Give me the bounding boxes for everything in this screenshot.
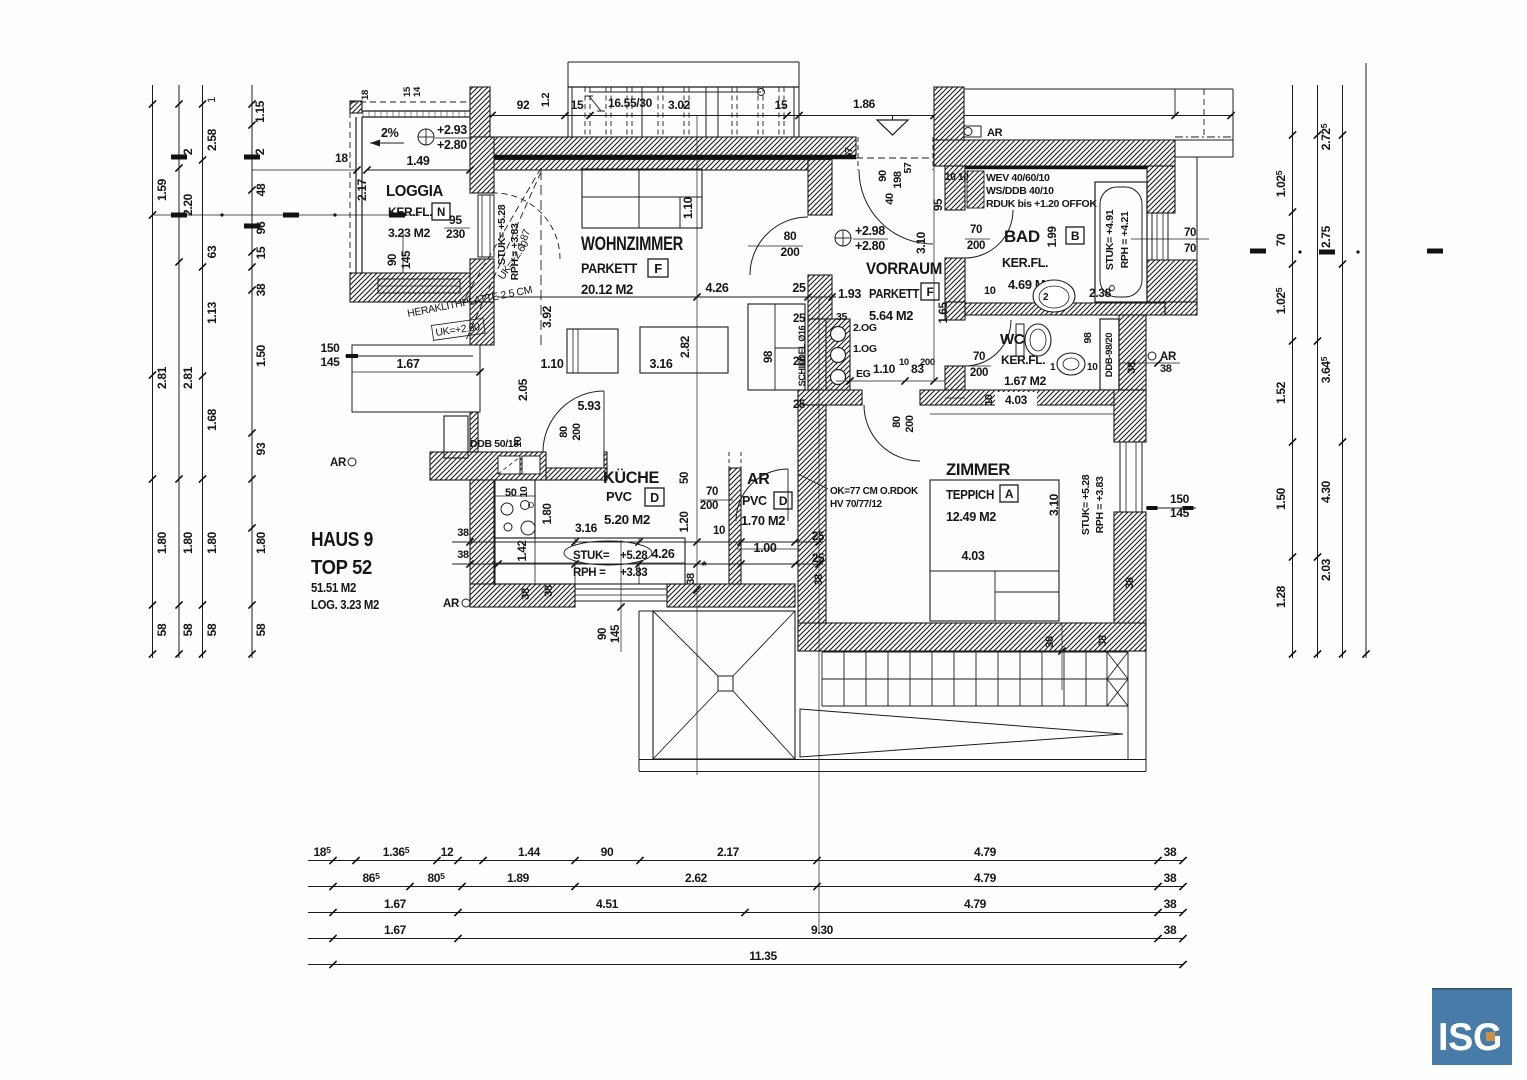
- cupboard boxes: [444, 416, 468, 458]
- svg-text:WC: WC: [1000, 331, 1025, 348]
- svg-text:AR: AR: [1160, 351, 1177, 363]
- svg-text:3.10: 3.10: [914, 231, 928, 254]
- svg-text:LOGGIA: LOGGIA: [386, 183, 443, 200]
- svg-text:25: 25: [793, 399, 806, 411]
- wohnzimmer dim line: [497, 296, 836, 298]
- svg-text:4.03: 4.03: [1005, 393, 1028, 407]
- svg-text:25: 25: [793, 356, 806, 368]
- svg-text:63: 63: [205, 245, 219, 258]
- east step band: [1165, 302, 1197, 315]
- svg-text:57: 57: [902, 162, 914, 173]
- svg-text:90: 90: [597, 628, 609, 640]
- entrance triangle symbol: [877, 120, 908, 135]
- svg-text:38: 38: [1044, 636, 1056, 648]
- svg-text:HAUS 9: HAUS 9: [311, 528, 373, 551]
- svg-text:+2.80: +2.80: [855, 239, 885, 253]
- zimmer dim vertical: [1061, 623, 1063, 690]
- svg-text:WEV 40/60/10: WEV 40/60/10: [986, 172, 1050, 184]
- svg-text:12: 12: [441, 845, 454, 859]
- svg-text:40: 40: [884, 193, 896, 205]
- kitchen bottom window: [575, 589, 667, 601]
- svg-text:4.30: 4.30: [1319, 480, 1333, 503]
- loggia left railing: [355, 117, 357, 273]
- svg-text:98: 98: [763, 350, 775, 363]
- svg-text:BAD: BAD: [1004, 227, 1040, 246]
- right chain bold ticks: [1250, 249, 1266, 254]
- svg-text:1.20: 1.20: [679, 512, 691, 533]
- svg-text:200: 200: [967, 240, 985, 252]
- svg-text:38: 38: [1164, 923, 1177, 937]
- left connector line y215: [152, 214, 420, 216]
- svg-text:1.10: 1.10: [873, 362, 896, 376]
- entrance door dashes: [857, 137, 859, 170]
- svg-text:AR: AR: [330, 457, 347, 469]
- svg-text:96: 96: [254, 221, 268, 234]
- wall top band right part: [934, 140, 1175, 166]
- vorraum furniture: [748, 304, 805, 390]
- svg-text:1.52: 1.52: [1274, 381, 1288, 404]
- svg-text:10: 10: [945, 172, 956, 183]
- svg-text:2.81: 2.81: [181, 366, 195, 389]
- vorraum level symbol: [835, 230, 851, 246]
- svg-text:4.26: 4.26: [652, 547, 675, 561]
- svg-text:145: 145: [321, 355, 341, 369]
- svg-text:25: 25: [812, 531, 825, 543]
- svg-text:3.16: 3.16: [650, 357, 673, 371]
- bad texts: [967, 171, 984, 208]
- wc fixtures: [1016, 324, 1024, 356]
- wohnzimmer-vorraum wall at shaft: [808, 319, 826, 390]
- svg-text:38: 38: [520, 588, 532, 600]
- svg-text:50: 50: [679, 472, 691, 484]
- svg-text:1.49: 1.49: [407, 154, 430, 168]
- ISG logo: [1432, 988, 1512, 1065]
- svg-text:1.67: 1.67: [384, 923, 407, 937]
- bad door arc: [965, 210, 1013, 258]
- ar door arc: [736, 469, 788, 521]
- svg-text:200: 200: [904, 415, 916, 433]
- svg-text:3.02: 3.02: [668, 98, 691, 112]
- svg-text:38: 38: [254, 283, 268, 296]
- svg-text:LOG. 3.23 M2: LOG. 3.23 M2: [311, 598, 379, 612]
- svg-text:38: 38: [1164, 897, 1177, 911]
- svg-text:38: 38: [1097, 635, 1109, 647]
- chimney block: [934, 87, 964, 166]
- svg-text:ZIMMER: ZIMMER: [946, 460, 1010, 479]
- svg-text:3.16: 3.16: [575, 521, 598, 535]
- svg-text:9.30: 9.30: [811, 923, 834, 937]
- svg-text:98: 98: [1082, 332, 1094, 343]
- loggia walls: [350, 101, 362, 113]
- svg-text:4.79: 4.79: [974, 871, 997, 885]
- svg-text:1.70 M2: 1.70 M2: [741, 514, 785, 528]
- wohnzimmer-vorraum wall upper: [808, 160, 832, 216]
- bottom dimension ticks: [329, 857, 336, 864]
- svg-text:200: 200: [700, 500, 718, 512]
- wohnzimmer wardrobe: [582, 169, 702, 228]
- zimmer bottom wall band: [798, 623, 1146, 651]
- svg-text:PARKETT: PARKETT: [581, 261, 638, 276]
- svg-text:200: 200: [571, 423, 583, 441]
- svg-text:1.65: 1.65: [938, 302, 950, 324]
- bad east window: [1152, 213, 1168, 260]
- svg-text:STUK= +5.28: STUK= +5.28: [496, 204, 508, 265]
- svg-text:2.17: 2.17: [355, 178, 369, 201]
- svg-text:4.79: 4.79: [974, 845, 997, 859]
- svg-text:2: 2: [253, 148, 267, 155]
- svg-text:51.51 M2: 51.51 M2: [311, 581, 356, 595]
- svg-text:57: 57: [843, 147, 855, 158]
- svg-text:38: 38: [457, 549, 469, 561]
- vorraum door arc: [750, 217, 808, 275]
- white step top right outline: [1175, 139, 1233, 141]
- west wall upper (staircase side): [470, 87, 490, 137]
- svg-text:1.50: 1.50: [1274, 487, 1288, 510]
- loggia door dashed arc: [494, 193, 560, 259]
- wc west wall: [945, 302, 965, 320]
- svg-text:1.80: 1.80: [155, 531, 169, 554]
- svg-text:+3.83: +3.83: [620, 567, 647, 579]
- west wall lower stub: [470, 412, 478, 452]
- roof ladder x triangles: [1107, 652, 1128, 679]
- svg-text:95: 95: [933, 198, 945, 211]
- svg-text:KER.FL.: KER.FL.: [388, 205, 432, 219]
- west wall mid: [470, 302, 494, 345]
- svg-text:1.99: 1.99: [1047, 227, 1059, 248]
- svg-text:18: 18: [360, 90, 371, 100]
- svg-text:38: 38: [1164, 845, 1177, 859]
- svg-text:1.10: 1.10: [681, 196, 695, 219]
- svg-text:2.OG: 2.OG: [853, 322, 877, 334]
- svg-text:1.86: 1.86: [853, 97, 876, 111]
- bottom dimension lines: [308, 860, 1183, 862]
- dimension break symbol: [589, 96, 601, 111]
- roof eave outline: [638, 611, 640, 771]
- svg-text:10: 10: [984, 285, 996, 297]
- svg-text:25: 25: [793, 313, 806, 325]
- svg-text:2.03: 2.03: [1319, 558, 1333, 581]
- entrance door arc: [859, 170, 933, 244]
- svg-text:145: 145: [610, 624, 622, 643]
- svg-text:150: 150: [321, 341, 341, 355]
- svg-text:PARKETT: PARKETT: [869, 287, 920, 301]
- svg-text:AR: AR: [443, 598, 460, 610]
- svg-text:KER.FL.: KER.FL.: [1001, 353, 1045, 367]
- svg-text:90: 90: [601, 845, 614, 859]
- svg-text:10: 10: [983, 394, 995, 405]
- svg-text:95: 95: [449, 213, 462, 227]
- left chain bold ticks: [171, 155, 187, 160]
- hip roof square: [653, 611, 795, 759]
- svg-text:KÜCHE: KÜCHE: [603, 468, 659, 487]
- svg-text:10: 10: [1087, 362, 1098, 373]
- schiedel shaft: [826, 319, 850, 390]
- svg-text:48: 48: [254, 183, 268, 196]
- svg-text:PVC: PVC: [742, 494, 767, 508]
- svg-text:1.80: 1.80: [542, 504, 554, 525]
- svg-text:+2.80: +2.80: [437, 138, 467, 152]
- svg-text:92: 92: [517, 98, 530, 112]
- svg-text:1.28: 1.28: [1274, 585, 1288, 608]
- svg-text:2: 2: [181, 148, 195, 155]
- wc door arc: [965, 320, 1011, 366]
- svg-text:HV 70/77/12: HV 70/77/12: [830, 499, 883, 510]
- wohnzimmer-vorraum wall lower: [808, 275, 832, 319]
- svg-text:1.93: 1.93: [838, 287, 861, 301]
- bathtub: [1095, 182, 1147, 302]
- svg-text:KER.FL.: KER.FL.: [1002, 256, 1048, 270]
- svg-text:70: 70: [706, 486, 718, 498]
- wohnzimmer furniture B: [640, 327, 728, 373]
- bad east wall below window: [1147, 260, 1197, 302]
- wohnzimmer furniture A: [567, 329, 618, 373]
- svg-text:TEPPICH: TEPPICH: [946, 488, 994, 502]
- svg-text:A: A: [1005, 487, 1014, 501]
- zimmer bed: [930, 480, 1059, 621]
- svg-text:3.92: 3.92: [540, 305, 554, 328]
- svg-text:93: 93: [254, 442, 268, 455]
- AR marker top right: [961, 126, 981, 137]
- svg-text:DDB-98/20: DDB-98/20: [1104, 333, 1115, 377]
- svg-text:RPH = +3.83: RPH = +3.83: [1094, 476, 1106, 533]
- svg-text:WS/DDB 40/10: WS/DDB 40/10: [986, 185, 1054, 197]
- svg-text:200: 200: [970, 367, 988, 379]
- svg-text:1.42: 1.42: [517, 541, 529, 562]
- 4.03 below wc: [995, 392, 1037, 407]
- svg-text:AR: AR: [987, 127, 1003, 139]
- svg-text:80: 80: [891, 416, 903, 428]
- svg-text:3.23 M2: 3.23 M2: [388, 226, 431, 240]
- svg-text:38: 38: [1164, 871, 1177, 885]
- heraklith texts: [406, 284, 533, 320]
- kitchen bottom wall: [470, 584, 575, 607]
- kitchen window dim: [620, 540, 622, 652]
- svg-text:1.44: 1.44: [518, 845, 541, 859]
- svg-text:2: 2: [1043, 292, 1049, 303]
- svg-text:12.49 M2: 12.49 M2: [946, 510, 996, 524]
- left chain ticks: [149, 100, 156, 107]
- staircase walking line: [589, 91, 761, 93]
- loggia top railing: [362, 110, 470, 112]
- loggia bottom wall: [350, 273, 470, 302]
- kitchen top band cupboards: [498, 456, 520, 474]
- svg-text:200: 200: [781, 245, 801, 259]
- loggia bottom window: [378, 279, 460, 293]
- svg-text:1: 1: [206, 97, 218, 103]
- svg-text:EG: EG: [856, 368, 871, 380]
- svg-text:2.81: 2.81: [155, 366, 169, 389]
- svg-text:+5.28: +5.28: [620, 550, 648, 562]
- svg-text:1.80: 1.80: [181, 531, 195, 554]
- svg-text:OK=77 CM O.RDOK: OK=77 CM O.RDOK: [830, 486, 919, 497]
- svg-text:25: 25: [812, 553, 825, 565]
- svg-text:2.75: 2.75: [1319, 225, 1333, 248]
- svg-text:2%: 2%: [381, 126, 399, 140]
- loggia door window: [478, 195, 494, 257]
- top right frame lines: [934, 88, 1233, 90]
- svg-text:1.80: 1.80: [254, 531, 268, 554]
- roof ladder strip: [822, 651, 1128, 653]
- svg-text:5.64 M2: 5.64 M2: [869, 309, 913, 323]
- loggia dashed outline: [350, 101, 470, 103]
- roof right band: [1127, 651, 1129, 760]
- svg-text:2.20: 2.20: [181, 193, 195, 216]
- wall top inner band: [470, 160, 808, 171]
- svg-text:+2.98: +2.98: [855, 224, 885, 238]
- dashed boundary lines: [540, 170, 542, 345]
- svg-text:15: 15: [571, 98, 584, 112]
- svg-text:1.13: 1.13: [205, 301, 219, 324]
- svg-text:2.05: 2.05: [516, 378, 530, 401]
- svg-text:STUK= +5.28: STUK= +5.28: [1080, 474, 1092, 535]
- zimmer door arc: [864, 405, 920, 461]
- washbasin: [1033, 280, 1075, 312]
- right dimension chain lines: [1292, 85, 1294, 658]
- zimmer west wall: [798, 405, 826, 651]
- svg-text:D: D: [650, 491, 659, 505]
- svg-text:10: 10: [713, 525, 725, 537]
- svg-text:1.59: 1.59: [155, 178, 169, 201]
- svg-text:PVC: PVC: [606, 489, 633, 504]
- svg-text:4.03: 4.03: [962, 549, 985, 563]
- svg-text:RDUK bis +1.20 OFFOK: RDUK bis +1.20 OFFOK: [986, 198, 1097, 210]
- kitchen west wall: [470, 480, 494, 584]
- svg-text:1.00: 1.00: [754, 541, 777, 555]
- svg-text:200: 200: [920, 357, 935, 368]
- svg-text:15: 15: [775, 98, 788, 112]
- svg-text:50: 50: [505, 487, 517, 499]
- stuk cloud kueche: [564, 541, 652, 565]
- svg-text:+2.93: +2.93: [437, 123, 467, 137]
- svg-text:16.55/30: 16.55/30: [608, 96, 653, 110]
- zimmer east wall: [1114, 390, 1146, 442]
- kueche dim lines: [452, 541, 823, 543]
- svg-text:1.80: 1.80: [205, 531, 219, 554]
- svg-text:TOP 52: TOP 52: [311, 556, 372, 579]
- svg-text:70: 70: [970, 224, 982, 236]
- svg-text:2.38: 2.38: [1089, 286, 1112, 300]
- svg-text:STUK= +4.91: STUK= +4.91: [1104, 209, 1116, 270]
- kitchen top wall band: [430, 452, 546, 480]
- svg-text:1.89: 1.89: [507, 871, 530, 885]
- svg-text:RPH =: RPH =: [573, 567, 606, 579]
- svg-text:70: 70: [1184, 227, 1196, 239]
- svg-text:58: 58: [254, 623, 268, 636]
- kueche-ar divider wall: [729, 468, 741, 584]
- svg-text:38: 38: [1124, 577, 1136, 589]
- svg-text:10: 10: [518, 486, 530, 497]
- svg-text:F: F: [927, 285, 934, 299]
- ddb box: [1100, 319, 1119, 390]
- wall top right thick line: [965, 166, 1175, 170]
- svg-text:150: 150: [1170, 492, 1190, 506]
- svg-text:70: 70: [973, 351, 985, 363]
- svg-text:STUK=: STUK=: [573, 550, 610, 562]
- svg-text:1: 1: [1050, 362, 1056, 373]
- svg-text:38: 38: [813, 574, 825, 586]
- svg-text:90: 90: [877, 170, 889, 182]
- left dimension chain lines: [152, 85, 154, 658]
- svg-text:WOHNZIMMER: WOHNZIMMER: [581, 234, 683, 255]
- svg-text:70: 70: [1274, 233, 1288, 246]
- zimmer top wall band: [798, 390, 862, 405]
- svg-text:1.67: 1.67: [397, 357, 420, 371]
- roof wedge: [800, 709, 1123, 757]
- svg-text:80: 80: [784, 229, 797, 243]
- vorraum-bad wall: [945, 166, 965, 210]
- svg-text:1.15: 1.15: [253, 100, 267, 123]
- svg-text:1.2: 1.2: [540, 93, 552, 107]
- svg-text:4.51: 4.51: [596, 897, 619, 911]
- svg-text:B: B: [1071, 229, 1080, 243]
- svg-text:2.17: 2.17: [717, 845, 740, 859]
- svg-text:38: 38: [543, 585, 555, 597]
- left chain end bars: [149, 650, 156, 657]
- wall corner chunk right of bathtub: [1147, 166, 1175, 213]
- top dimension line: [490, 115, 1233, 117]
- svg-text:80: 80: [558, 426, 570, 438]
- svg-text:38: 38: [457, 527, 469, 539]
- svg-text:58: 58: [155, 623, 169, 636]
- svg-text:4.26: 4.26: [706, 281, 729, 295]
- svg-text:RPH = +4.21: RPH = +4.21: [1119, 211, 1131, 268]
- svg-text:38: 38: [685, 573, 697, 585]
- svg-text:1.50: 1.50: [254, 344, 268, 367]
- svg-text:20.12 M2: 20.12 M2: [581, 282, 633, 297]
- svg-text:1.67 M2: 1.67 M2: [1004, 374, 1047, 388]
- zimmer east window: [1120, 442, 1142, 512]
- svg-text:38: 38: [1160, 363, 1172, 375]
- svg-text:10: 10: [958, 172, 969, 183]
- staircase top boundary: [568, 61, 799, 63]
- svg-text:18: 18: [335, 151, 348, 165]
- svg-text:70: 70: [1184, 243, 1196, 255]
- bad-wc divider wall: [965, 303, 1165, 315]
- svg-text:1.10: 1.10: [541, 357, 564, 371]
- svg-text:VORRAUM: VORRAUM: [866, 259, 942, 278]
- svg-text:25: 25: [792, 281, 806, 295]
- svg-text:10: 10: [899, 357, 909, 368]
- svg-text:N: N: [437, 207, 445, 219]
- svg-text:D: D: [779, 494, 788, 508]
- svg-text:10: 10: [512, 436, 524, 447]
- svg-text:2.62: 2.62: [685, 871, 708, 885]
- kueche counter left: [495, 480, 535, 538]
- svg-text:5.20 M2: 5.20 M2: [604, 512, 650, 527]
- svg-text:2.82: 2.82: [678, 335, 692, 358]
- right chain ticks: [1289, 131, 1296, 138]
- svg-text:5.93: 5.93: [578, 399, 601, 413]
- kueche counter bottom: [495, 538, 685, 584]
- staircase treads: [571, 87, 573, 139]
- svg-text:11.35: 11.35: [749, 949, 777, 963]
- wall top band staircase side: [490, 137, 856, 156]
- svg-text:230: 230: [446, 227, 466, 241]
- svg-text:15: 15: [254, 246, 268, 259]
- svg-text:4.79: 4.79: [964, 897, 987, 911]
- wohnzimmer-kueche door arc: [543, 391, 604, 452]
- svg-text:35: 35: [836, 311, 847, 323]
- svg-text:90: 90: [387, 254, 399, 266]
- svg-text:1.OG: 1.OG: [853, 343, 877, 355]
- svg-text:2.58: 2.58: [205, 128, 219, 151]
- svg-text:1.68: 1.68: [205, 408, 219, 431]
- kitchen top wall right of west door: [546, 468, 607, 480]
- box below loggia: [352, 345, 480, 412]
- svg-text:14: 14: [412, 86, 423, 97]
- west wall below loggia door: [470, 259, 494, 302]
- wall top thick line: [470, 155, 856, 160]
